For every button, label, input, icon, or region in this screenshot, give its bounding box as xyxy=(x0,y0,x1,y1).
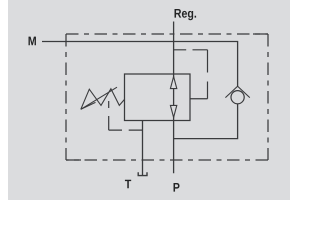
adjustment arrow shaft xyxy=(81,87,117,109)
wire: stub valve body to pilot xyxy=(190,98,208,100)
label Reg. xyxy=(175,9,197,20)
drain pilot line (dashed) to T branch xyxy=(109,129,143,131)
flow arrow down (hollow) xyxy=(170,105,176,117)
pilot line (dashed) from Reg to valve, vertical run xyxy=(207,50,209,99)
drain pilot line (dashed) spring chamber down xyxy=(108,101,110,130)
flow arrow up (hollow) xyxy=(170,77,176,89)
wire: check valve to P line xyxy=(174,104,238,139)
label T xyxy=(125,180,131,189)
plugged port T symbol xyxy=(138,172,147,175)
wire: M gauge line to check valve xyxy=(42,42,238,87)
wire: T branch xyxy=(142,121,144,176)
valve body U1 (main square) xyxy=(125,74,191,121)
background page xyxy=(0,0,300,200)
label M xyxy=(29,37,36,46)
enclosure boundary (dash-dot assembly box) xyxy=(66,34,268,160)
wire: Reg/P main vertical line xyxy=(173,22,175,174)
check valve V1 ball xyxy=(231,91,244,104)
spring (adjustable) xyxy=(81,89,125,110)
gray schematic panel xyxy=(8,0,290,200)
label P xyxy=(174,183,180,192)
pilot line (dashed) from Reg to valve, horizontal run xyxy=(174,49,208,51)
check valve V1 seat xyxy=(225,86,249,97)
adjustment arrow barb xyxy=(81,102,96,109)
